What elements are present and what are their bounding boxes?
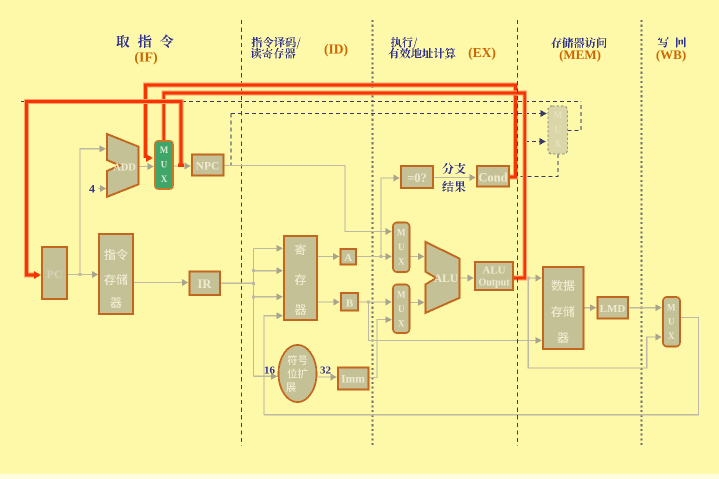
register NPC (192, 155, 224, 176)
latch B (341, 293, 358, 311)
wire B to EX mux2 (358, 298, 392, 305)
svg-text:PC: PC (47, 267, 63, 281)
svg-text:32: 32 (320, 365, 332, 377)
wire B bypass to data-mem (369, 302, 542, 344)
svg-text:M: M (160, 145, 169, 155)
wire A to EX mux1 (356, 253, 392, 260)
svg-text:U: U (668, 317, 675, 327)
svg-text:LMD: LMD (600, 303, 626, 315)
svg-text:X: X (398, 257, 405, 267)
stage divider EX/MEM (517, 20, 519, 446)
label EX stage (388, 37, 495, 60)
svg-text:(ID): (ID) (324, 42, 348, 57)
svg-text:M: M (397, 228, 406, 238)
svg-text:U: U (398, 242, 405, 252)
register IR (190, 272, 221, 296)
svg-text:U: U (398, 304, 405, 314)
dashed ghost return wire (21, 101, 581, 103)
stage divider IF/ID (241, 20, 243, 446)
wire regfile to A (317, 253, 340, 260)
dashed wire ALUout to ghost mux (525, 138, 546, 145)
svg-text:IR: IR (198, 277, 213, 291)
data memory (543, 267, 584, 349)
wire 4 to ADD (98, 185, 107, 192)
wire A to zero-test (381, 174, 400, 256)
svg-text:ADD: ADD (113, 163, 136, 174)
svg-text:Output: Output (478, 278, 510, 289)
dashed ghost mux output loop (568, 102, 582, 131)
latch A (341, 249, 357, 265)
sign extend unit (279, 345, 317, 402)
wire WB mux output loop (264, 317, 698, 414)
svg-text:U: U (161, 160, 168, 170)
wire EX mux1 to ALU (410, 253, 425, 260)
dashed wire NPC to ghost mux (231, 110, 547, 117)
svg-text:M: M (667, 303, 676, 313)
register file (284, 236, 317, 320)
svg-text:(EX): (EX) (468, 45, 496, 60)
mux IF (green MUX) (155, 141, 173, 189)
svg-text:U: U (554, 126, 561, 136)
wire IR to sign-extend (254, 373, 278, 380)
label branch result (442, 163, 465, 192)
wire NPC to EX mux1 (224, 166, 393, 236)
alu ALU (426, 242, 460, 313)
wire zero-test to Cond (433, 174, 476, 181)
label MEM stage (551, 37, 606, 62)
svg-text:B: B (346, 298, 354, 310)
label ID stage (251, 37, 348, 59)
instruction memory (99, 234, 133, 314)
adder ADD (107, 134, 139, 197)
dashed ghost cond select (513, 154, 558, 177)
wire ADD to MUX (139, 163, 154, 170)
svg-text:ALU: ALU (482, 265, 505, 277)
svg-text:Imm: Imm (341, 374, 365, 386)
label 16 bits (264, 365, 276, 377)
register PC (42, 247, 67, 299)
stage divider MEM/WB (641, 20, 643, 446)
wire WB to regfile (264, 312, 283, 415)
svg-text:Cond: Cond (478, 171, 507, 185)
wire sign-extend to Imm (317, 373, 338, 380)
register LMD (598, 297, 629, 319)
svg-text:16: 16 (264, 365, 276, 377)
wire instr-mem to IR (133, 279, 189, 286)
svg-text:M: M (397, 290, 406, 300)
wire EX mux2 to ALU (410, 299, 425, 306)
label constant 4 (89, 182, 95, 196)
svg-text:4: 4 (89, 182, 95, 196)
label 32 bits (320, 365, 332, 377)
wire IR fanout (220, 245, 283, 376)
svg-text:ALU: ALU (434, 273, 459, 285)
mux EX lower (393, 285, 410, 334)
svg-text:X: X (554, 140, 561, 150)
svg-text:(IF): (IF) (134, 51, 158, 66)
dashed wire NPC drop (230, 114, 232, 166)
svg-text:X: X (668, 331, 675, 341)
label IF stage (116, 35, 173, 66)
wire data-mem to LMD (584, 304, 597, 311)
mux EX upper (393, 223, 410, 273)
svg-text:=0?: =0? (407, 171, 427, 185)
svg-text:A: A (344, 252, 352, 264)
zero test box (401, 166, 433, 188)
wire ALU to ALU-output (460, 274, 474, 281)
register Imm (338, 368, 369, 390)
wire PC to ADD (80, 145, 106, 274)
label WB stage (656, 37, 686, 62)
red wire new-PC to PC (27, 102, 185, 280)
wire PC out (67, 271, 99, 278)
svg-text:M: M (553, 111, 562, 121)
ghost mux (dashed MUX) (548, 106, 568, 154)
wire regfile to B (317, 298, 340, 305)
svg-text:X: X (398, 319, 405, 329)
red wire Cond to IF mux (branch taken select) (146, 85, 516, 177)
svg-text:X: X (161, 174, 168, 184)
wire ALU-output bypass to WB mux (527, 277, 662, 369)
register ALU Output (475, 262, 513, 290)
red wire ALU-output to IF mux (branch target) (164, 93, 525, 278)
wire Imm to EX mux2 (369, 316, 393, 378)
stage divider ID/EX (372, 20, 374, 446)
register Cond (477, 166, 509, 187)
wire MUX to NPC (173, 162, 191, 169)
svg-text:(WB): (WB) (656, 47, 686, 62)
svg-text:(MEM): (MEM) (559, 47, 601, 62)
wire ALU-output to data-mem (513, 274, 542, 281)
wire LMD to WB mux (628, 304, 662, 311)
mux WB (663, 297, 680, 347)
svg-text:NPC: NPC (196, 161, 220, 173)
